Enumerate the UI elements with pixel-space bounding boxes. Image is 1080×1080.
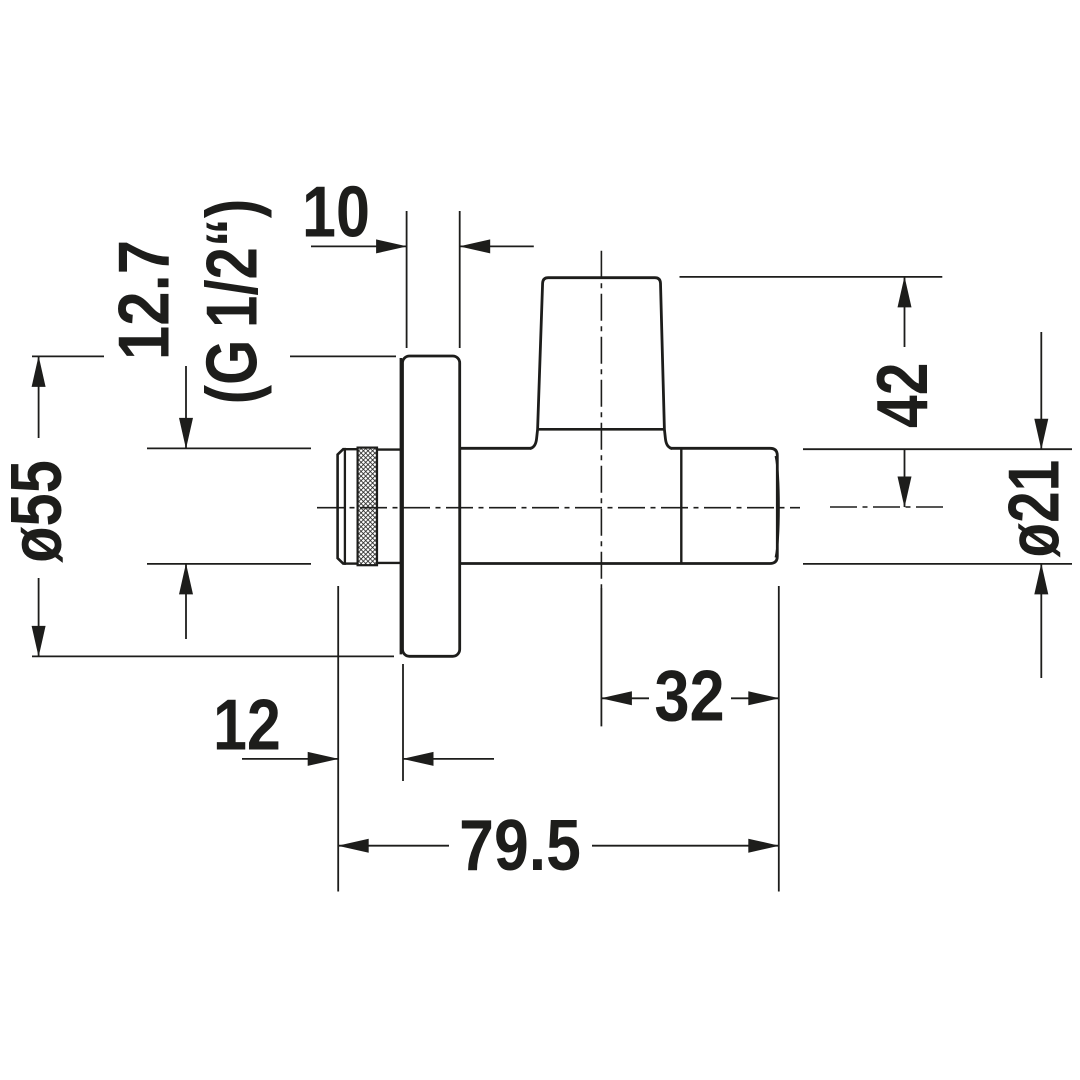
svg-text:(G 1/2“): (G 1/2“) (190, 199, 272, 405)
svg-text:42: 42 (862, 363, 943, 428)
svg-text:ø55: ø55 (0, 460, 77, 563)
svg-text:ø21: ø21 (993, 460, 1074, 558)
svg-text:12.7: 12.7 (104, 240, 185, 360)
svg-text:10: 10 (302, 171, 370, 252)
svg-text:12: 12 (213, 684, 281, 765)
svg-text:32: 32 (654, 655, 724, 736)
svg-text:79.5: 79.5 (459, 806, 581, 886)
